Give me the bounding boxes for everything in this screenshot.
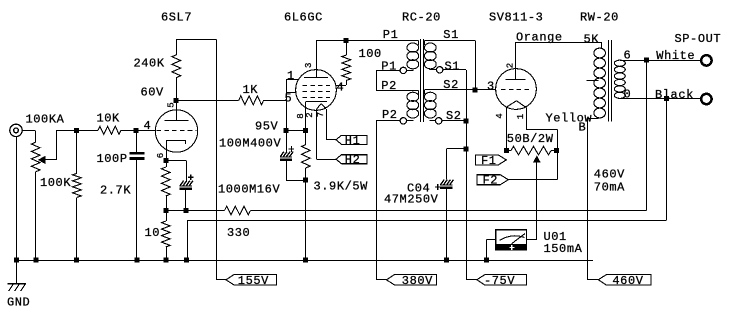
svg-text:F2: F2: [483, 174, 499, 188]
svg-text:H2: H2: [345, 153, 361, 167]
6L6GC cathode: [306, 102, 328, 131]
wire cathode to bypass cap: [166, 161, 187, 181]
wiper arrow 100KA: [38, 156, 46, 164]
svg-text:6: 6: [156, 153, 166, 158]
svg-text:P2: P2: [382, 108, 398, 122]
junction 10 ground: [164, 258, 169, 263]
svg-text:150mA: 150mA: [544, 242, 583, 256]
flag 155V: [226, 274, 277, 288]
label 6: [624, 49, 632, 63]
svg-text:S2: S2: [443, 78, 459, 92]
pin 5 label: [285, 92, 293, 106]
svg-text:10: 10: [145, 226, 161, 240]
wire filament pin4 to pot: [506, 108, 508, 151]
RC-20 winding P2: [407, 92, 419, 118]
svg-text:5: 5: [285, 92, 293, 106]
node bias junction 1: [464, 118, 469, 123]
junction jack ground: [14, 258, 19, 263]
resistor 240K lead top: [176, 39, 178, 55]
tube SV811-3 envelope: [496, 69, 537, 110]
node NFB junction left: [164, 208, 169, 213]
svg-text:4: 4: [337, 81, 345, 95]
resistor 330: [225, 206, 251, 215]
RW-20 core: [609, 40, 612, 122]
label 3.9K/5W: [314, 180, 369, 194]
wire S1 top to grid: [425, 40, 476, 90]
label B: [579, 121, 587, 135]
svg-text:100KA: 100KA: [26, 113, 65, 127]
pin 2 label (rotated): [505, 63, 515, 68]
6SL7 plate: [165, 100, 189, 120]
svg-text:S1: S1: [443, 28, 459, 42]
svg-text:1000M16V: 1000M16V: [218, 183, 280, 197]
label 6SL7: [161, 11, 192, 25]
resistor 3.9K/5W lead: [305, 131, 307, 145]
label pin 3: [487, 80, 495, 94]
pin 3 label (rotated): [304, 63, 314, 68]
wire 1K to 6L6 grid bus: [264, 100, 286, 102]
node 3.9K bottom junction: [303, 178, 308, 183]
label 6L6GC: [284, 11, 323, 25]
svg-text:460V: 460V: [612, 274, 643, 288]
input jack J1: [10, 124, 22, 136]
wire 6L6 plate to P1: [316, 40, 419, 45]
label 50B/2W: [507, 132, 554, 146]
svg-text:380V: 380V: [402, 274, 433, 288]
label 1K: [243, 83, 259, 97]
svg-text:1: 1: [516, 114, 526, 119]
wire 3.9K to ground rail: [305, 168, 307, 260]
svg-text:1: 1: [287, 69, 295, 83]
wire node B to 6SL7 grid: [136, 130, 155, 132]
wire heater lead H2: [317, 109, 337, 160]
svg-text:RW-20: RW-20: [580, 11, 619, 25]
flag -75V: [477, 274, 527, 288]
terminal Black (circle): [701, 94, 711, 104]
wire grid node to cathode node: [286, 130, 306, 132]
pin 8 label (rotated): [296, 113, 306, 118]
svg-text:330: 330: [227, 226, 250, 240]
terminal S2 (circle): [436, 118, 442, 124]
node bias junction 2 (C04 tap): [464, 146, 469, 151]
terminal White (circle): [701, 55, 711, 65]
capacitor 100P: [130, 152, 145, 160]
meter U01 body: [496, 230, 527, 250]
wire C04 to ground rail: [446, 189, 448, 260]
svg-text:100: 100: [359, 47, 382, 61]
wire 100 to plate wire: [346, 40, 348, 55]
svg-text:70mA: 70mA: [594, 181, 625, 195]
tube 6L6GC envelope: [296, 70, 337, 111]
svg-text:155V: 155V: [238, 274, 269, 288]
svg-text:B: B: [579, 121, 587, 135]
SV811-3 plate: [506, 42, 526, 80]
svg-text:7: 7: [316, 112, 326, 117]
node pot right junction: [554, 148, 559, 153]
wire wiper to meter: [527, 162, 537, 239]
SV811-3 grid (dashed): [501, 89, 529, 91]
wire 2.7K to NFB node: [166, 196, 168, 211]
svg-text:460V: 460V: [594, 168, 625, 182]
node 6L6 grid junction: [284, 128, 289, 133]
node screen feed junction: [344, 38, 349, 43]
label 5K: [584, 33, 600, 47]
wire 10 to ground rail: [166, 247, 168, 260]
label 2.7K: [100, 184, 131, 198]
flag F1: [476, 154, 507, 168]
junction pot ground: [34, 258, 39, 263]
wire S2 top to grid: [425, 90, 476, 95]
wire NFB from White: [646, 60, 648, 211]
svg-text:1K: 1K: [243, 83, 259, 97]
wire P1 bottom: [407, 70, 414, 72]
svg-text:SV811-3: SV811-3: [489, 11, 543, 25]
svg-text:10K: 10K: [97, 112, 121, 126]
wire 1000M16V to NFB node: [185, 190, 187, 211]
label 10K: [97, 112, 121, 126]
meter U01 plus mark: [509, 245, 514, 250]
svg-text:3: 3: [487, 80, 495, 94]
label 10: [145, 226, 161, 240]
6L6GC grids (dashed): [303, 86, 331, 98]
resistor 2.7K: [162, 167, 171, 196]
node Black junction: [664, 96, 669, 101]
wire 10K to node B: [121, 130, 136, 132]
flag H2: [336, 153, 367, 167]
tube 6SL7 envelope: [155, 110, 197, 152]
terminal S1 (circle): [437, 67, 443, 73]
label pin 4 of 6SL7: [144, 119, 152, 133]
svg-text:3: 3: [304, 63, 314, 68]
svg-text:H1: H1: [345, 134, 361, 148]
RC-20 winding S2: [424, 92, 436, 118]
flag F2: [477, 174, 508, 188]
wire 100K to ground rail: [76, 197, 78, 260]
label P2 bottom: [382, 108, 398, 122]
svg-text:4: 4: [144, 119, 152, 133]
node A junction: [74, 128, 79, 133]
6L6GC grid bus: [286, 79, 288, 131]
wire 460V feed: [587, 118, 598, 280]
6L6GC screen tab: [336, 81, 347, 86]
wire S1 bottom: [430, 69, 437, 71]
wire 100M400V to 3.9K bottom: [286, 161, 306, 181]
label 460V supply: [594, 168, 625, 182]
capacitor 1000M16V: [180, 181, 193, 190]
6L6GC grid tab: [286, 92, 296, 94]
svg-text:P1: P1: [381, 59, 397, 73]
wire plate to 1K: [176, 100, 239, 102]
wire node A to 10K: [77, 130, 99, 132]
node NFB junction right: [184, 208, 189, 213]
wire C04 tap: [446, 149, 466, 180]
label White: [656, 49, 695, 63]
RW-20 primary bottom lead: [587, 118, 599, 120]
label 150mA: [544, 242, 583, 256]
label C04: [407, 182, 430, 196]
svg-text:4: 4: [495, 113, 505, 118]
junction 100K ground: [74, 258, 79, 263]
label 240K: [134, 57, 165, 71]
6L6GC pin1 tab: [286, 79, 299, 81]
meter U01 scale arc: [500, 236, 525, 241]
wire speaker return from Black: [666, 99, 668, 220]
wire NFB node: [166, 210, 186, 212]
capacitor C04: [440, 180, 453, 189]
svg-text:6SL7: 6SL7: [161, 11, 192, 25]
pin 4 label (rotated): [495, 113, 505, 118]
label 100: [359, 47, 382, 61]
svg-text:2: 2: [505, 63, 515, 68]
svg-text:F1: F1: [481, 154, 497, 168]
wire SV plate to RW-20: [516, 42, 602, 48]
label U01: [544, 230, 567, 244]
RC-20 winding S1: [424, 43, 436, 69]
wire 240K to plate node: [176, 78, 178, 101]
wire secondary tap 6: [620, 60, 701, 62]
junction ext ground: [184, 258, 189, 263]
label P2 top: [381, 79, 397, 93]
label 100KA: [26, 113, 65, 127]
RW-20 primary tap stub: [586, 80, 598, 82]
wire 155V feed: [216, 39, 226, 279]
wire wiper to node A: [45, 130, 76, 160]
node pot left junction: [504, 148, 509, 153]
svg-text:60V: 60V: [141, 86, 165, 100]
label P1 bottom: [381, 59, 397, 73]
terminal P2 (circle): [400, 118, 406, 124]
junction 100P ground: [134, 258, 139, 263]
wire bias line down: [466, 121, 477, 280]
svg-text:47M250V: 47M250V: [384, 193, 439, 207]
capacitor 100M400V: [280, 152, 293, 161]
wire NFB bus: [251, 210, 647, 212]
node SV grid junction: [473, 87, 478, 92]
flag 460V: [598, 274, 651, 288]
resistor 1K: [239, 96, 264, 105]
wire pot bottom to ground rail: [35, 172, 37, 260]
wire 100P to ground rail: [136, 160, 138, 260]
pin 2 label (rotated): [305, 112, 315, 117]
6L6GC plate: [304, 40, 328, 77]
polarity + of C04: [435, 184, 441, 190]
wiper arrow 50B/2W: [533, 155, 541, 162]
6SL7 grid (dashed): [157, 130, 197, 132]
label Yellow: [546, 112, 593, 126]
wire filament pin1 to pot: [526, 108, 557, 151]
svg-text:P2: P2: [381, 79, 397, 93]
label RC-20: [402, 11, 441, 25]
label SV811-3: [489, 11, 543, 25]
svg-text:Black: Black: [655, 88, 694, 102]
node 60V junction: [174, 98, 179, 103]
resistor 10: [162, 221, 171, 247]
resistor 330 wire left: [186, 210, 225, 212]
wire P1 terminal to P2 top: [376, 70, 418, 94]
flag 380V: [387, 274, 437, 288]
node White junction: [644, 58, 649, 63]
pin 7 label (rotated): [316, 112, 326, 117]
svg-text:2: 2: [305, 112, 315, 117]
svg-text:SP-OUT: SP-OUT: [675, 32, 722, 46]
SV811-3 filament: [506, 101, 526, 108]
svg-text:240K: 240K: [134, 57, 165, 71]
label 1000M16V: [218, 183, 280, 197]
pin 4 label: [337, 81, 345, 95]
ground rail: [17, 260, 594, 262]
resistor 100K: [73, 173, 82, 197]
wire ground extension: [187, 220, 667, 260]
svg-text:100P: 100P: [97, 152, 128, 166]
label P1 top: [383, 28, 399, 42]
ground symbol: [8, 284, 27, 292]
label S2 bottom: [446, 109, 462, 123]
wire meter to ground rail: [487, 239, 496, 260]
svg-text:5: 5: [166, 102, 176, 107]
wire S2 terminal to bias line: [442, 120, 466, 122]
polarity + of 100M400V: [289, 146, 295, 152]
resistor 2.7K lead: [166, 161, 168, 168]
pin 5 label (rotated): [166, 102, 176, 107]
svg-text:95V: 95V: [255, 120, 279, 134]
node 6L6 cathode junction: [303, 128, 308, 133]
label 330: [227, 226, 250, 240]
flag H1: [336, 134, 367, 148]
junction C04 ground: [444, 258, 449, 263]
label GND: [7, 296, 30, 310]
resistor 10 lead: [166, 211, 168, 222]
svg-text:0: 0: [624, 87, 632, 101]
wire F2 to pot right: [508, 151, 557, 180]
node 6SL7 cathode junction: [164, 158, 169, 163]
svg-text:5K: 5K: [584, 33, 600, 47]
resistor 10K: [98, 126, 121, 134]
label 70mA: [594, 181, 625, 195]
node B junction: [134, 128, 139, 133]
svg-text:Orange: Orange: [516, 31, 563, 45]
label 0: [624, 87, 632, 101]
6SL7 cathode: [166, 140, 186, 160]
potentiometer 100KA: [31, 142, 40, 172]
resistor 3.9K/5W: [302, 145, 311, 169]
RC-20 winding P1: [407, 43, 419, 69]
svg-text:100K: 100K: [40, 176, 71, 190]
label RW-20: [580, 11, 619, 25]
svg-text:P1: P1: [383, 28, 399, 42]
wire jack to volume pot: [22, 130, 35, 142]
RC-20 core: [421, 39, 424, 122]
SV811-3 grid tab: [475, 89, 496, 91]
svg-text:-75V: -75V: [484, 274, 515, 288]
svg-text:100M400V: 100M400V: [219, 137, 281, 151]
svg-text:3.9K/5W: 3.9K/5W: [314, 180, 369, 194]
meter U01 terminal band: [496, 244, 527, 251]
node meter ground junction: [484, 258, 489, 263]
potentiometer 50B/2W: [506, 146, 556, 155]
wire rail to ground symbol: [16, 260, 18, 283]
RW-20 primary winding: [594, 48, 606, 118]
svg-text:2.7K: 2.7K: [100, 184, 131, 198]
label 100K: [40, 176, 71, 190]
label SP-OUT: [675, 32, 722, 46]
resistor 240K: [172, 55, 181, 78]
RW-20 secondary winding: [614, 60, 625, 98]
svg-text:GND: GND: [7, 296, 30, 310]
wire S1 terminal down: [443, 70, 467, 122]
svg-text:White: White: [656, 49, 695, 63]
resistor 100K lead: [76, 130, 78, 173]
svg-text:S1: S1: [445, 59, 461, 73]
polarity + of 1000M16V: [188, 174, 194, 180]
wire S2 bottom: [430, 120, 436, 122]
wire P2 terminal to 380V: [376, 121, 400, 280]
label Orange: [516, 31, 563, 45]
meter U01 needle: [512, 234, 526, 244]
label S2 top: [443, 78, 459, 92]
svg-text:RC-20: RC-20: [402, 11, 441, 25]
pin 1 label (rotated): [516, 114, 526, 119]
wire P2 bottom: [407, 120, 414, 122]
svg-text:6L6GC: 6L6GC: [284, 11, 323, 25]
wire B+ top: [176, 39, 216, 41]
label S1 top: [443, 28, 459, 42]
wire jack to ground: [16, 137, 18, 261]
wire secondary tap 0: [620, 98, 701, 100]
capacitor 100P lead: [136, 130, 138, 152]
svg-text:50B/2W: 50B/2W: [507, 132, 554, 146]
junction 3.9K ground: [303, 258, 308, 263]
label Black: [655, 88, 694, 102]
6L6GC heater: [317, 104, 326, 109]
svg-text:6: 6: [624, 49, 632, 63]
terminal P1 (circle): [400, 67, 406, 73]
resistor 100: [342, 55, 351, 81]
pin 1 label: [287, 69, 295, 83]
label 95V: [255, 120, 279, 134]
label 47M250V: [384, 193, 439, 207]
label 100M400V: [219, 137, 281, 151]
label 60V: [141, 86, 165, 100]
label S1 bottom: [445, 59, 461, 73]
label 100P: [97, 152, 128, 166]
capacitor 100M400V lead: [286, 131, 288, 152]
wire heater lead H1: [326, 109, 336, 140]
pin 6 label (rotated): [156, 153, 166, 158]
